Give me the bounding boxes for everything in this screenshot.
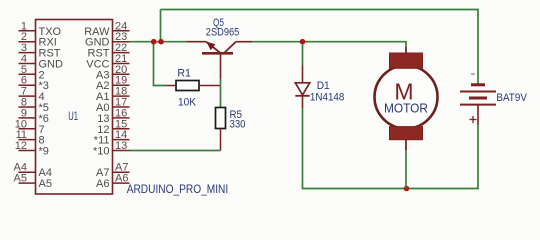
transistor Q5 base pin [220, 53, 222, 79]
svg-text:2SD965: 2SD965 [206, 27, 240, 39]
transistor Q5 collector pin [236, 41, 252, 43]
motor M1 body circle [375, 66, 438, 129]
wire GND net: pin23 to junction [130, 41, 155, 43]
transistor Q5 base bar [202, 52, 233, 55]
diode D1 cathode pin [302, 96, 304, 108]
diode D1 cathode bar [295, 95, 309, 97]
wire GND net: vertical up to top rail [160, 10, 162, 42]
U1 right pin numbers [115, 20, 128, 184]
svg-text:ARDUINO_PRO_MINI: ARDUINO_PRO_MINI [127, 184, 229, 196]
svg-text:13: 13 [115, 140, 127, 152]
motor M1 top pin [405, 47, 407, 56]
battery BAT9V plate long 1 [460, 91, 496, 93]
wire base node vertical [220, 79, 222, 108]
diode D1 triangle [295, 83, 309, 95]
battery BAT9V minus mark [471, 73, 475, 75]
svg-text:BAT9V: BAT9V [496, 92, 527, 104]
motor M1 bottom brush block [390, 127, 423, 140]
battery BAT9V plate short 2 [469, 97, 487, 100]
diode D1 anode pin [302, 66, 304, 84]
svg-text:A6: A6 [96, 178, 109, 190]
svg-text:1N4148: 1N4148 [310, 91, 345, 103]
svg-text:R1: R1 [177, 68, 191, 80]
battery BAT9V plus mark [470, 116, 477, 123]
U1 right pin stubs [113, 31, 130, 183]
U1 left pin stubs [19, 31, 36, 183]
motor M1 top brush block [390, 53, 423, 68]
svg-text:330: 330 [230, 118, 246, 130]
battery BAT9V plate long 2 [460, 104, 496, 106]
motor M1 bottom pin [405, 140, 407, 150]
wire GND net: junction to transistor emitter [154, 41, 187, 43]
wire collector rail to motor [252, 42, 406, 47]
junction dot at pin23 wire [151, 39, 157, 45]
svg-text:D1: D1 [317, 80, 330, 92]
svg-text:A5: A5 [39, 178, 52, 190]
svg-text:12: 12 [15, 140, 27, 152]
battery BAT9V bottom pin [477, 105, 479, 125]
svg-text:*10: *10 [93, 146, 110, 158]
junction dot at motor bottom [404, 186, 410, 192]
wire pin13 to R5 bottom [130, 150, 221, 152]
resistor R5 [216, 108, 226, 129]
svg-text:*9: *9 [39, 146, 49, 158]
svg-text:U1: U1 [68, 111, 78, 123]
U1 left pin names [39, 26, 64, 190]
junction dot at diode top [300, 39, 306, 45]
wire diode cathode to bottom rail [303, 108, 407, 189]
svg-text:A6: A6 [115, 173, 128, 185]
U1 left pin numbers [14, 20, 27, 184]
U1 right pin names [84, 26, 110, 190]
wire diode anode drop [302, 44, 304, 66]
IC U1 body [36, 20, 113, 195]
wire motor bottom to rail [405, 150, 407, 189]
svg-text:A5: A5 [14, 173, 27, 185]
wire GND net: vertical down to R1 [154, 42, 167, 86]
resistor R1 [167, 85, 177, 87]
svg-text:10K: 10K [178, 96, 197, 108]
wire bottom rail right [406, 125, 478, 189]
transistor Q5 emitter pin [187, 41, 207, 43]
wire top rail to battery top [161, 10, 479, 85]
transistor Q5 collector diagonal [224, 42, 236, 53]
transistor Q5 emitter diagonal [207, 42, 221, 53]
transistor Q5 emitter arrow [206, 42, 215, 51]
svg-text:MOTOR: MOTOR [384, 101, 428, 115]
battery BAT9V plate short 1 [471, 83, 485, 86]
junction dot at vertical riser [158, 39, 164, 45]
